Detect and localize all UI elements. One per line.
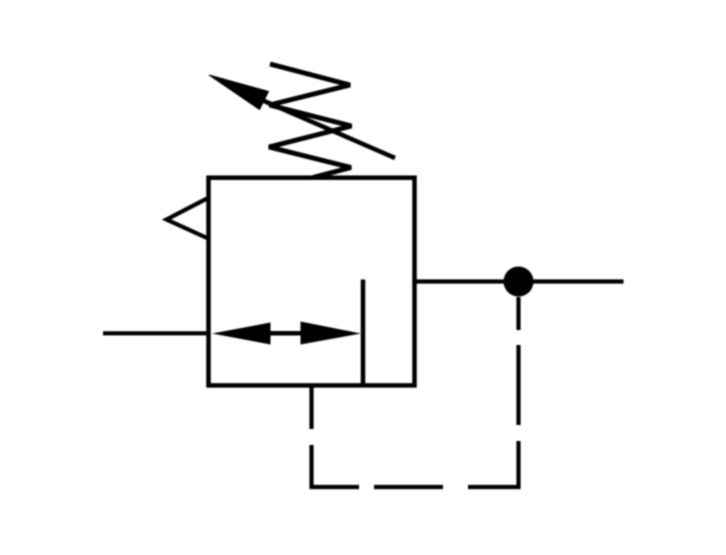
flow arrow right head	[301, 322, 362, 345]
junction dot	[504, 267, 534, 297]
spring (zigzag)	[269, 64, 352, 178]
spool stop vertical line	[361, 280, 366, 386]
pilot line dash (right vertical, below dot)	[516, 297, 520, 330]
flow arrow left head	[212, 323, 271, 345]
flow arrow shaft	[266, 331, 304, 336]
pilot line dash (bottom middle)	[374, 485, 443, 489]
pilot line dash (bottom-right corner)	[468, 441, 519, 487]
valve body box	[209, 178, 415, 386]
vent triangle	[167, 199, 208, 239]
adjustment arrow shaft	[263, 101, 395, 159]
pilot line dash (right vertical, middle)	[516, 345, 520, 425]
inlet line	[103, 331, 209, 335]
adjustment arrowhead	[209, 75, 269, 110]
outlet line	[415, 279, 624, 283]
pilot line dash (bottom-left corner)	[312, 445, 360, 487]
pilot line dash (left vertical, at box bottom)	[309, 386, 313, 430]
